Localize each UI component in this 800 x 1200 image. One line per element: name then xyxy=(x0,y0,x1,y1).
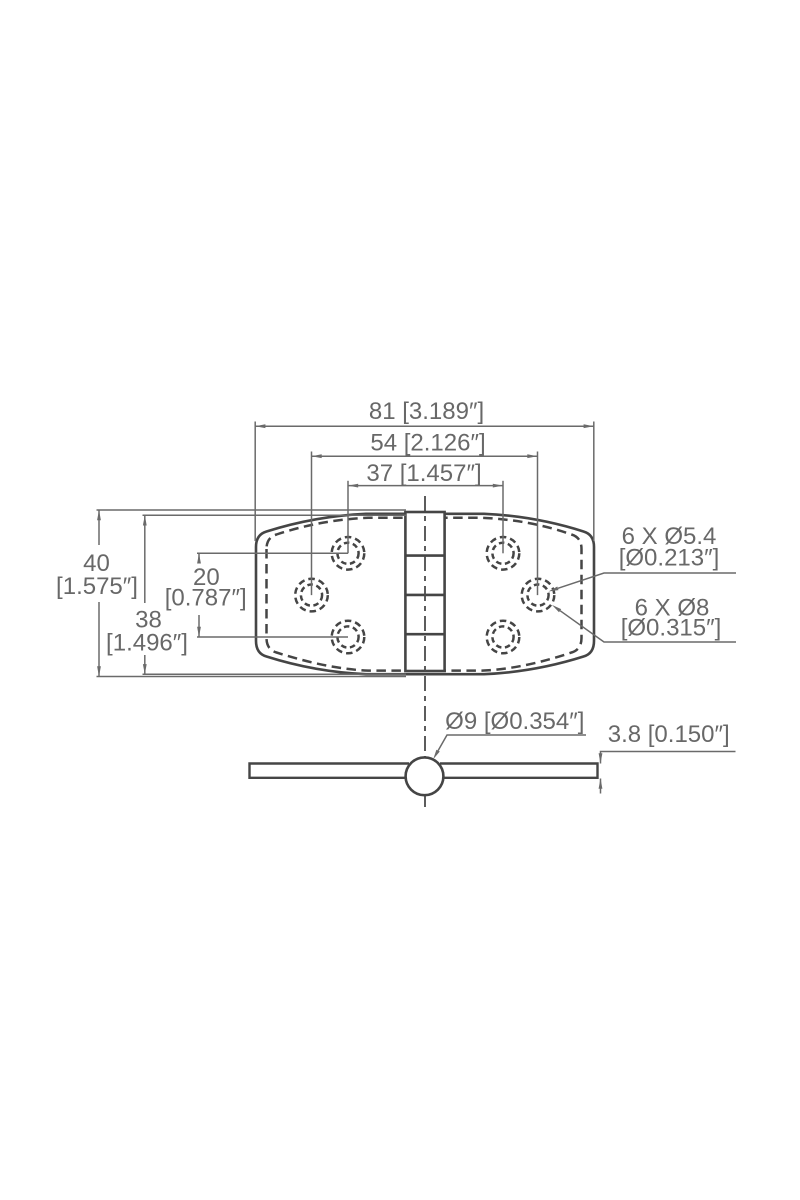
dim 81 arrow right xyxy=(584,424,594,428)
svg-text:Ø9 [Ø0.354″]: Ø9 [Ø0.354″] xyxy=(445,708,584,735)
dim 3.8 arrow top xyxy=(599,753,603,763)
dim 40 line upper xyxy=(98,510,100,545)
dim 20 line upper xyxy=(198,553,200,562)
hole bottom-right inner xyxy=(492,626,513,647)
hinge barrel xyxy=(405,512,444,671)
dim 20 arrow top xyxy=(197,553,201,563)
svg-text:[Ø0.213″]: [Ø0.213″] xyxy=(619,545,720,572)
dim 40 arrow bottom xyxy=(97,666,101,676)
hinge leaf outline (solid) xyxy=(256,514,594,674)
dim 54 arrow left xyxy=(312,454,322,458)
dim 37 extension line right xyxy=(502,481,504,554)
svg-text:37 [1.457″]: 37 [1.457″] xyxy=(366,460,481,487)
dim 54 extension line left xyxy=(311,452,313,596)
callout O9 leader xyxy=(438,735,586,751)
dim 38 line upper xyxy=(144,515,146,603)
hole top-left outer xyxy=(332,537,365,570)
callout 6xO5.4 arrow xyxy=(548,587,558,592)
dim 3.8 leader xyxy=(601,752,736,764)
dim 38 extension line top xyxy=(143,514,407,516)
dim 3.8 arrow bottom xyxy=(599,779,603,789)
svg-text:[1.496″]: [1.496″] xyxy=(106,630,188,657)
dim 3.8 lower line xyxy=(600,779,602,794)
dim 38 line lower xyxy=(144,655,146,674)
dim 81 extension line left xyxy=(254,422,256,542)
dim 37 arrow right xyxy=(493,484,503,488)
callout 6xO5.4 leader xyxy=(558,573,736,588)
dim 20 extension line top xyxy=(197,552,348,554)
dim 81 line xyxy=(255,425,594,427)
hole top-left inner xyxy=(337,543,358,564)
dim 20 arrow bottom xyxy=(197,627,201,637)
dim 37 arrow left xyxy=(348,484,358,488)
svg-text:[0.787″]: [0.787″] xyxy=(165,584,247,611)
dim 81 arrow left xyxy=(255,424,265,428)
hole bottom-right outer xyxy=(487,621,520,654)
dim 37 line xyxy=(348,485,503,487)
dim 81 extension line right xyxy=(593,422,595,542)
svg-text:[1.575″]: [1.575″] xyxy=(56,573,138,600)
dim 40 extension line top xyxy=(97,509,407,511)
callout 6xO8 leader xyxy=(560,611,736,642)
knuckle line 3 xyxy=(405,633,444,636)
knuckle line 1 xyxy=(405,554,444,557)
hole mid-left outer xyxy=(295,579,328,612)
dim 20 extension line bottom xyxy=(197,636,348,638)
callout 6xO8 arrow xyxy=(552,605,561,612)
dim 54 line xyxy=(312,455,538,457)
dim 54 extension line right xyxy=(537,452,539,596)
svg-text:3.8 [0.150″]: 3.8 [0.150″] xyxy=(608,721,730,748)
dim 54 arrow right xyxy=(527,454,537,458)
hole top-right inner xyxy=(492,543,513,564)
dim 37 extension line left xyxy=(347,481,349,554)
hole mid-right outer xyxy=(522,579,555,612)
dim 40 line lower xyxy=(98,602,100,677)
callout O9 arrow xyxy=(433,750,440,760)
side view left leaf plate xyxy=(250,764,411,778)
hole bottom-left inner xyxy=(337,626,358,647)
hole mid-left inner xyxy=(301,585,322,606)
dim 38 arrow bottom xyxy=(143,664,147,674)
svg-text:54 [2.126″]: 54 [2.126″] xyxy=(370,430,485,457)
hole mid-right inner xyxy=(527,585,548,606)
pin centerline xyxy=(424,496,426,807)
dim 38 arrow top xyxy=(143,515,147,525)
hinge leaf inner outline (hidden/dashed) xyxy=(267,518,582,671)
hole bottom-left outer xyxy=(332,621,365,654)
hole top-right outer xyxy=(487,537,520,570)
svg-text:81 [3.189″]: 81 [3.189″] xyxy=(369,398,484,425)
knuckle line 2 xyxy=(405,594,444,597)
dim 40 arrow top xyxy=(97,510,101,520)
svg-text:[Ø0.315″]: [Ø0.315″] xyxy=(621,615,722,642)
dim 40 extension line bottom xyxy=(97,676,407,678)
dim 20 line lower xyxy=(198,615,200,637)
side view right leaf plate xyxy=(440,764,598,778)
dim 38 extension line bottom xyxy=(143,673,407,675)
side view barrel circle xyxy=(406,757,444,795)
